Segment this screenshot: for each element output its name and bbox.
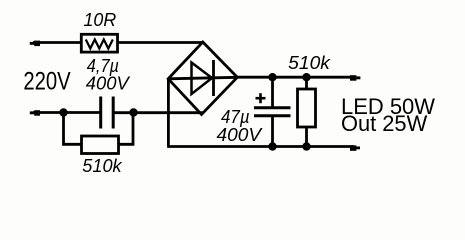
wire bridge left corner down to negative rail — [167, 79, 170, 147]
node dot AC2 left — [59, 108, 67, 116]
svg-text:220V: 220V — [23, 68, 71, 96]
node dot AC2 right — [129, 108, 137, 116]
resistor R1 10R box — [81, 34, 117, 52]
node dot positive rail at R3 — [302, 73, 310, 81]
svg-text:Out 25W: Out 25W — [341, 111, 427, 136]
svg-text:10R: 10R — [84, 9, 117, 30]
svg-text:510k: 510k — [288, 52, 332, 73]
node dot negative rail at R3 — [302, 142, 310, 150]
positive rail wire — [238, 76, 355, 79]
terminal arrow top-left — [30, 41, 81, 47]
negative rail wire — [167, 145, 354, 148]
terminal arrow bottom-right — [350, 145, 360, 150]
wire C1 to bridge bottom corner — [115, 111, 203, 114]
capacitor C1 4.7u plates — [101, 97, 114, 129]
bridge rectifier D1 diamond — [168, 42, 237, 115]
terminal arrow top-right — [350, 75, 360, 81]
resistor R3 510k right — [298, 77, 316, 146]
node dot positive rail at C2 — [268, 73, 276, 81]
resistor R2 510k parallel — [64, 113, 134, 154]
svg-text:400V: 400V — [86, 72, 131, 93]
svg-text:510k: 510k — [82, 155, 123, 176]
wire R1 to bridge top — [118, 41, 203, 44]
capacitor C2 47u electrolytic — [254, 77, 291, 146]
terminal arrow bottom-left — [30, 110, 100, 116]
node dot negative rail at C2 — [268, 142, 276, 150]
svg-text:400V: 400V — [217, 124, 263, 145]
plus polarity mark C2 — [256, 93, 266, 103]
